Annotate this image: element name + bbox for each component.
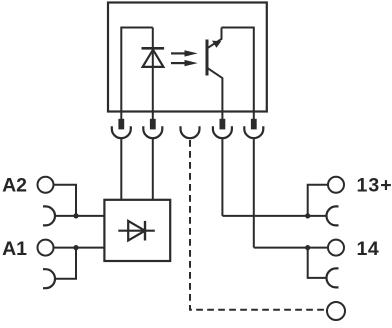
wire pin1 to LED loop [121,28,153,120]
terminal 13+ [328,177,344,193]
svg-text:13+: 13+ [357,175,392,197]
relay module box [108,3,267,112]
wire A2 to junction [54,185,76,216]
contact below A2 [43,206,55,225]
wire contact A2 to diode box [55,215,104,217]
wire socket4 down [221,139,223,216]
diode D2 [118,221,155,241]
optocoupler light arrow 1 [171,50,198,56]
junction A1 [73,245,78,250]
phototransistor Q1 collector (lower branch) [208,68,223,119]
terminal aux bottom [327,302,345,320]
terminal 14 [328,240,344,256]
junction 13+ [305,213,310,218]
terminal A2 [38,177,54,193]
LED D1 vertical wire [152,28,154,120]
optocoupler light arrow 2 [171,60,198,66]
contact below 13+ [327,206,339,225]
svg-text:A2: A2 [2,175,27,197]
socket pin 2 [143,119,162,138]
wire 13+ to junction [308,185,328,216]
socket pin 1 [112,119,131,138]
phototransistor Q1 emitter (upper branch with arrow) [208,28,222,49]
wire collector loop top [222,28,254,120]
dashed wire socket3 to aux terminal [190,140,327,310]
junction 14 [305,245,310,250]
socket pin 3 [181,126,200,138]
LED D1 [142,48,165,67]
wire socket4 to 13+ group [222,215,326,217]
contact below A1 [43,269,55,288]
socket pin 4 [213,119,232,138]
wire socket5 down [253,139,255,248]
wire junction 14 to contact [308,248,327,278]
diode box [104,200,170,261]
socket pin 5 [244,119,263,138]
junction A2 [73,213,78,218]
wire socket5 to 14 group [254,247,328,249]
wire socket2 to diode box [152,139,154,200]
terminal A1 [38,240,54,256]
wire A1 to diode box [54,247,104,249]
contact below 14 [327,268,339,287]
phototransistor Q1 base bar [206,40,209,76]
wire socket1 to diode box [120,139,122,200]
svg-text:A1: A1 [2,238,27,260]
svg-text:14: 14 [357,238,380,260]
wire contact A1 to junction [55,248,76,279]
